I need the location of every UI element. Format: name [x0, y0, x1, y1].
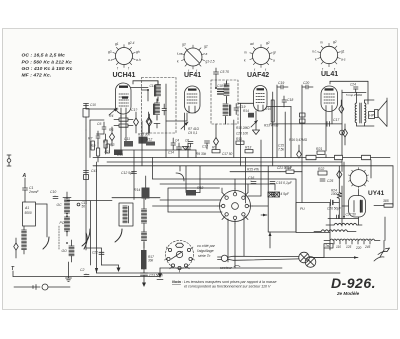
svg-text:R15 47k: R15 47k	[247, 168, 259, 172]
resistor R5 box	[114, 124, 133, 127]
tube UAF42 envelope	[254, 86, 268, 112]
frequency range note	[22, 53, 73, 79]
ground arrow x118	[117, 265, 121, 272]
capacitor C16 in T1	[162, 104, 167, 115]
svg-text:m: m	[244, 51, 247, 55]
coil T1 primary	[155, 81, 161, 101]
wire vertical x134	[133, 150, 135, 200]
svg-text:R12: R12	[146, 138, 152, 142]
resistor network mid (R11)	[236, 137, 244, 144]
wire UCH41 anode	[131, 81, 158, 88]
svg-text:C12 5μF: C12 5μF	[121, 171, 135, 175]
svg-text:C24: C24	[350, 83, 356, 87]
wire vertical v5	[245, 158, 247, 204]
svg-text:R10 2MΩ: R10 2MΩ	[236, 126, 250, 130]
trimmer T1	[146, 112, 151, 133]
svg-text:PO : 560 Kc à 212 Kc: PO : 560 Kc à 212 Kc	[22, 59, 73, 65]
wire UL41 cathode lead	[326, 112, 332, 158]
trimmer right2	[343, 124, 348, 145]
svg-text:C18: C18	[287, 98, 293, 102]
capacitor C20 top	[302, 81, 313, 89]
svg-text:m: m	[320, 41, 323, 45]
svg-text:R8: R8	[103, 140, 107, 144]
wire bus left	[93, 158, 393, 166]
svg-text:UAF42: UAF42	[247, 72, 269, 79]
wire vertical v9	[276, 85, 278, 158]
svg-text:C21 0,1μF: C21 0,1μF	[277, 166, 293, 170]
resistor R8	[103, 140, 109, 154]
svg-text:R11: R11	[236, 137, 242, 141]
svg-text:g2-4: g2-4	[128, 41, 135, 45]
wire UL41 grid line	[270, 123, 342, 125]
wire heater bottom	[313, 256, 358, 259]
svg-text:C14: C14	[168, 151, 174, 155]
wire loop A	[153, 179, 297, 232]
svg-text:PU: PU	[300, 207, 305, 211]
svg-text:C9 0,1: C9 0,1	[188, 131, 198, 135]
resistor R13 below T1	[138, 133, 150, 144]
resistor R24 box right	[374, 199, 393, 207]
capacitor C5 above T2	[214, 68, 230, 88]
mains cord plug	[14, 284, 70, 290]
wire verticals near UY41	[339, 162, 344, 219]
svg-text:g2: g2	[333, 40, 337, 44]
svg-text:vu côté par: vu côté par	[197, 244, 216, 248]
svg-text:R13 30k: R13 30k	[138, 133, 150, 137]
svg-text:C10: C10	[50, 190, 56, 194]
mains dropper winding row2	[314, 230, 356, 232]
trimmer osc 2	[147, 114, 152, 133]
resistor R2	[97, 143, 100, 162]
wire switch top leads	[222, 179, 248, 193]
resistor R21	[316, 147, 325, 154]
capacitor C14 below T1	[168, 138, 176, 155]
label R cluster UF41	[188, 127, 200, 135]
wire lamps	[309, 241, 384, 258]
svg-text:A1: A1	[24, 206, 29, 210]
arrow at dial right	[269, 232, 272, 248]
junction dots osc	[66, 213, 68, 244]
capacitor C25	[320, 179, 333, 183]
wire switch bottom	[228, 217, 244, 268]
capacitor C10 left of T1	[50, 190, 58, 199]
speaker HP	[375, 101, 388, 127]
tube UF41 envelope	[185, 86, 201, 113]
svg-text:D-926.: D-926.	[331, 275, 376, 291]
wire v302 to PU	[301, 172, 303, 203]
resistor R13	[245, 146, 253, 153]
wire right edge	[387, 98, 393, 206]
wire arm feed	[36, 204, 48, 237]
svg-text:gh: gh	[136, 50, 140, 54]
svg-text:g2: g2	[266, 41, 270, 45]
oscillator coil L6	[69, 240, 74, 262]
capacitor C6	[185, 139, 191, 158]
wire v371	[370, 160, 372, 178]
wire under UY41	[328, 218, 359, 220]
wire vertical v11	[341, 90, 343, 172]
svg-text:30k: 30k	[148, 259, 154, 263]
trimmer diamond UY41	[337, 171, 342, 179]
svg-text:C12: C12	[202, 145, 208, 149]
wire transformer top	[342, 92, 374, 126]
svg-text:R5: R5	[109, 128, 113, 132]
svg-text:a-s: a-s	[341, 58, 346, 62]
antenna coil box L1	[23, 202, 36, 226]
switch arm osc1	[82, 229, 90, 246]
capacitor C17 coupling	[327, 118, 339, 126]
resistor R9	[212, 146, 220, 153]
capacitor C27	[337, 213, 357, 219]
svg-text:et correspondent au fonctionne: et correspondent au fonctionnement sur s…	[184, 285, 271, 289]
tap circle osc	[77, 201, 87, 209]
svg-text:série Tc: série Tc	[198, 254, 211, 258]
wire vertical v1	[96, 162, 98, 273]
arrow to v268	[261, 214, 267, 217]
tube UCH41 envelope	[116, 83, 132, 118]
volume pot	[176, 166, 184, 181]
svg-text:385: 385	[383, 199, 389, 203]
svg-text:2e Modèle: 2e Modèle	[336, 291, 360, 296]
label socket note	[197, 244, 216, 258]
svg-text:C11: C11	[124, 137, 130, 141]
ground arrow x96	[95, 268, 98, 273]
wire UAF42 anode lead	[267, 107, 291, 158]
svg-text:C22: C22	[92, 251, 98, 255]
resistor R3	[104, 134, 107, 154]
wire switch left leads	[153, 200, 223, 212]
junction dot T2	[215, 84, 228, 94]
svg-text:C20 100: C20 100	[236, 132, 248, 136]
svg-text:R13: R13	[245, 146, 251, 150]
svg-text:g2: g2	[204, 45, 208, 49]
wire switch right leads	[248, 196, 268, 206]
svg-text:C19: C19	[278, 81, 284, 85]
coil T1 secondary	[154, 99, 160, 120]
capacitor C41 on x85	[84, 169, 98, 180]
svg-text:: Les tensions marquées sont p: : Les tensions marquées sont prises par …	[182, 280, 276, 284]
wire padder top	[112, 198, 160, 250]
capacitor C24 top	[350, 83, 358, 93]
left edge dipole mark	[7, 155, 11, 166]
capacitor C11b + ground under UF41	[183, 142, 194, 151]
svg-text:R21: R21	[316, 147, 322, 151]
svg-text:g1: g1	[115, 42, 119, 46]
label voltage taps	[336, 245, 371, 250]
socket UL41	[312, 40, 346, 78]
capacitor C22	[92, 251, 104, 255]
svg-text:TaC: TaC	[325, 244, 331, 248]
resistor R1 grid	[83, 109, 89, 131]
svg-text:C10: C10	[90, 103, 96, 107]
wire vertical x90	[89, 201, 91, 265]
svg-text:OC: OC	[57, 203, 63, 207]
svg-text:C17 50: C17 50	[222, 152, 233, 156]
svg-text:2mmF: 2mmF	[28, 190, 40, 194]
trimmer osc 1	[134, 112, 139, 133]
resistor R16	[265, 100, 274, 122]
svg-text:R14: R14	[134, 188, 140, 192]
wire vertical x85	[85, 130, 87, 250]
wire T2 to UAF42	[238, 102, 254, 104]
AVC line	[195, 150, 197, 158]
wire vertical v3	[152, 158, 154, 180]
ground arrow padder	[142, 275, 146, 287]
resistor R7	[88, 137, 94, 151]
svg-text:UCH41: UCH41	[113, 72, 136, 79]
svg-text:110: 110	[336, 245, 341, 249]
svg-text:MF : 472 Kc.: MF : 472 Kc.	[22, 73, 52, 79]
resistor R24 zigzag	[331, 189, 342, 199]
fuse box bus1	[306, 155, 316, 159]
svg-text:f-m: f-m	[177, 52, 182, 56]
small socket viewed from below	[164, 241, 195, 273]
svg-text:220: 220	[355, 246, 362, 250]
label R1 values	[91, 108, 137, 148]
svg-text:A: A	[22, 173, 27, 179]
wire loop B	[160, 184, 275, 190]
capacitor C4	[175, 139, 182, 158]
label Tant box	[324, 244, 333, 249]
wire bottom right vertical	[342, 186, 385, 241]
wire vertical x186	[185, 166, 187, 193]
trimmer diamond osc3	[109, 127, 114, 146]
resistor R4	[114, 118, 133, 121]
svg-text:R3: R3	[110, 143, 114, 147]
svg-text:ad: ad	[250, 42, 254, 46]
resistor R2 dark	[105, 150, 123, 156]
terminal T	[11, 266, 15, 277]
wire vertical v8	[272, 92, 274, 166]
resistor R18	[186, 166, 203, 196]
capacitor C10 grid	[84, 103, 97, 109]
electrolytic C26	[327, 200, 342, 211]
resistor R12	[146, 138, 155, 146]
wire grid UF41	[166, 113, 188, 130]
coil L8	[141, 230, 146, 248]
svg-text:GO: GO	[62, 249, 68, 253]
svg-text:C18 70: C18 70	[217, 84, 228, 88]
wire vertical v7	[267, 166, 269, 232]
svg-text:l'aiguillage: l'aiguillage	[197, 249, 214, 253]
svg-text:50: 50	[82, 205, 86, 209]
switch arm padder	[115, 229, 122, 242]
capacitor C19 in T2	[234, 104, 246, 115]
socket UCH41	[108, 41, 141, 79]
model label D-926	[331, 275, 376, 296]
svg-text:5000: 5000	[25, 211, 32, 215]
antenna coil L2	[22, 226, 27, 254]
resistor R22	[318, 167, 327, 175]
ground UAF42 cathode	[253, 111, 260, 135]
svg-text:UL41: UL41	[321, 71, 338, 78]
nota text	[172, 279, 276, 289]
capacitor C16	[248, 176, 256, 184]
svg-text:g3: g3	[182, 43, 186, 47]
svg-text:125: 125	[346, 245, 352, 249]
rotary switch main	[218, 189, 253, 224]
capacitor C15	[270, 181, 293, 185]
svg-text:C1?: C1?	[131, 108, 137, 112]
coil T2 primary	[224, 81, 229, 103]
label OC PO GO	[57, 203, 68, 253]
label C15b	[278, 138, 308, 152]
fuse box bus2	[335, 155, 343, 159]
svg-text:7,5k: 7,5k	[278, 148, 284, 152]
svg-text:g1-2,5: g1-2,5	[206, 60, 215, 64]
svg-text:HP: HP	[369, 114, 374, 118]
diamond det	[214, 124, 219, 150]
svg-text:Nota: Nota	[172, 279, 182, 284]
wire osc to cap	[86, 248, 119, 265]
coupling element T1	[154, 124, 160, 129]
svg-text:C27 50: C27 50	[346, 213, 357, 217]
wire UCH41 grid cap	[86, 104, 118, 116]
svg-text:OC : 16,5 à 2,5 Mc: OC : 16,5 à 2,5 Mc	[22, 53, 66, 59]
socket UF41	[177, 43, 215, 80]
ground bottom mid	[157, 268, 163, 280]
svg-text:R22: R22	[318, 167, 324, 171]
capacitor C23	[141, 269, 164, 277]
svg-text:n.c.: n.c.	[312, 50, 317, 54]
svg-text:R18: R18	[197, 186, 203, 190]
svg-text:C15 0,1μF: C15 0,1μF	[276, 181, 293, 185]
mains dropper winding row1	[326, 223, 362, 225]
svg-text:245: 245	[364, 245, 371, 249]
IF transformer T2 dashed shield	[211, 80, 238, 124]
svg-text:C2: C2	[80, 268, 84, 272]
svg-text:C26 50μF: C26 50μF	[327, 207, 342, 211]
svg-text:R16 0,47MΩ: R16 0,47MΩ	[289, 138, 308, 142]
capacitor C8	[96, 131, 100, 143]
wire UCH41 cathode leads	[120, 115, 196, 150]
svg-text:R2: R2	[105, 150, 109, 154]
wire vertical v10	[301, 85, 303, 172]
svg-text:C14 5μF: C14 5μF	[276, 192, 290, 196]
resistor boxes x302	[300, 113, 306, 123]
antenna terminal A	[22, 173, 27, 188]
svg-text:GO : 410 Kc à 150 Kc: GO : 410 Kc à 150 Kc	[22, 66, 73, 72]
wire bottom bus3	[13, 276, 160, 278]
dial pointer assembly	[218, 255, 300, 270]
svg-text:R4: R4	[109, 114, 113, 118]
svg-text:a-h: a-h	[136, 58, 141, 62]
dashed core osc	[58, 226, 60, 250]
svg-text:C16: C16	[248, 176, 254, 180]
capacitor C1 antenna	[23, 186, 40, 202]
svg-text:C17: C17	[333, 118, 339, 122]
grid UCH41 network wires	[90, 120, 104, 158]
wire vertical v2	[141, 121, 143, 166]
junction circle x344	[340, 130, 345, 135]
svg-text:a-c: a-c	[108, 58, 113, 62]
svg-text:UF41: UF41	[184, 72, 201, 79]
svg-text:C41: C41	[91, 169, 97, 173]
svg-text:C15: C15	[150, 84, 156, 88]
oscillator coil L4	[63, 192, 71, 213]
svg-text:C4: C4	[175, 139, 179, 143]
svg-text:UY41: UY41	[368, 190, 385, 197]
coil T2 secondary	[223, 104, 231, 124]
svg-text:R7: R7	[88, 137, 92, 141]
svg-text:C20: C20	[303, 81, 309, 85]
wire bottom bus2	[97, 272, 341, 274]
capacitor C14	[270, 192, 290, 196]
socket UAF42	[244, 41, 277, 79]
svg-text:R14: R14	[243, 109, 249, 113]
voltage selector winding	[324, 239, 380, 244]
volant arrows	[374, 248, 390, 261]
socket UY41	[348, 168, 384, 197]
svg-text:5 Imp 2500Ω: 5 Imp 2500Ω	[346, 93, 363, 97]
tube UY41 envelope	[349, 196, 366, 218]
capacitor C12	[121, 171, 137, 175]
wire mid horizontal	[230, 171, 280, 173]
svg-text:R16: R16	[265, 107, 271, 111]
junction dot T1	[142, 84, 156, 101]
contact boxes right of switch	[268, 192, 279, 197]
resistor R19	[280, 166, 302, 173]
wire AVC vertical	[240, 103, 242, 166]
capacitor C11	[124, 137, 133, 147]
svg-text:C13: C13	[117, 153, 123, 157]
tube UL41 envelope	[321, 86, 338, 112]
svg-text:C6: C6	[97, 122, 101, 126]
capacitor C2 bottom	[80, 268, 89, 277]
capacitor C7	[102, 122, 106, 134]
padder coil L7	[119, 198, 147, 230]
switch arm osc2	[84, 233, 87, 249]
resistor R14b UAF42	[243, 109, 254, 118]
svg-text:C5 70: C5 70	[220, 70, 229, 74]
svg-text:C25: C25	[327, 179, 333, 183]
output transformer TR windings	[355, 92, 366, 126]
svg-text:R9 30k: R9 30k	[196, 152, 207, 156]
wire UL41 anode to OT	[330, 81, 368, 104]
resistor R14	[134, 176, 150, 200]
arrow UAF42 cathode	[251, 121, 258, 128]
svg-text:g3: g3	[108, 50, 112, 54]
label R10	[236, 126, 250, 136]
wire UY41 kathode	[358, 189, 360, 225]
wire vertical v6	[260, 140, 262, 196]
capacitor C12b under UF41	[202, 141, 210, 149]
svg-text:C23 5000: C23 5000	[149, 274, 163, 278]
svg-text:a: a	[273, 59, 275, 63]
wire PU drop	[329, 233, 331, 251]
label HP box	[369, 112, 375, 119]
capacitor C18	[282, 96, 293, 107]
pilot lamps	[299, 252, 316, 267]
svg-text:C6: C6	[185, 139, 189, 143]
ground osc	[66, 262, 72, 282]
svg-text:100Ω: 100Ω	[331, 192, 339, 196]
svg-text:PO: PO	[60, 221, 65, 225]
diamond v299	[297, 145, 302, 158]
trimmer right1	[339, 100, 344, 113]
svg-text:secteur: secteur	[220, 266, 233, 270]
switch arm antenna	[43, 237, 49, 249]
wire loop C	[168, 188, 220, 212]
wire osc top	[67, 197, 112, 201]
label cluster mid	[117, 152, 293, 172]
IF transformer T1 dashed shield	[142, 78, 177, 134]
trimmer antenna	[14, 238, 19, 258]
oscillator coil L5	[64, 215, 69, 236]
wire vertical v285	[284, 112, 286, 158]
wire vertical v4	[233, 120, 235, 158]
svg-text:g1: g1	[341, 50, 345, 54]
